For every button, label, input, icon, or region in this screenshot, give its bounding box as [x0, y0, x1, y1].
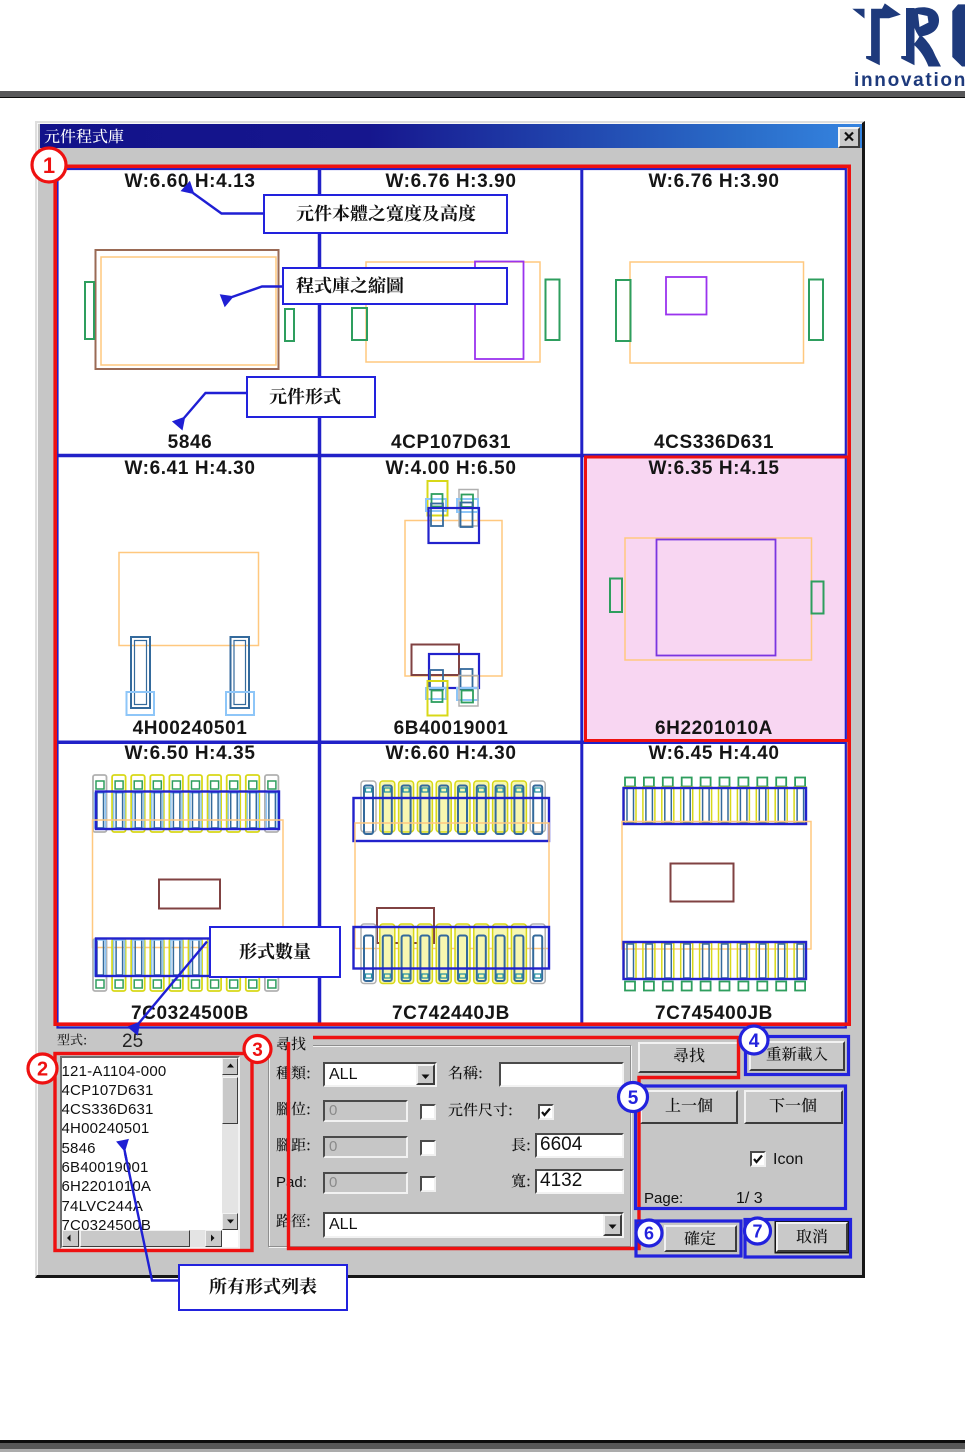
red annotation frame 3 (search group) — [289, 1038, 739, 1249]
path combobox — [323, 1212, 624, 1238]
listbox vertical scrollbar — [222, 1058, 239, 1230]
circle 7 — [745, 1218, 771, 1244]
field label 腳位 — [276, 1101, 311, 1120]
cell text labels — [62, 172, 318, 191]
cell 2,1 : 4H00240501 thumbnail — [119, 553, 259, 646]
TRI innovation logo — [840, 0, 965, 95]
blue annotation box 7 (cancel) — [745, 1220, 851, 1258]
grid listview white background — [58, 170, 845, 1026]
Icon checkbox (checked) — [750, 1151, 766, 1167]
cell 1,3 : 4CS336D631 thumbnail — [630, 262, 804, 363]
type count label — [57, 1033, 87, 1049]
Icon label — [773, 1151, 803, 1169]
cell 3,1 : 7C0324500B thumbnail — [93, 775, 107, 832]
search button — [638, 1042, 740, 1073]
group box — [268, 1045, 631, 1248]
pad checkbox — [420, 1176, 436, 1192]
pin checkbox — [420, 1104, 436, 1120]
field label 路徑 — [276, 1213, 311, 1232]
listbox horizontal scrollbar — [62, 1230, 222, 1247]
listbox — [60, 1056, 240, 1249]
circle 1 — [32, 148, 66, 182]
dialog title bar — [40, 124, 862, 148]
grid row divider 2 — [58, 740, 845, 744]
previous button — [640, 1090, 738, 1124]
cancel button — [776, 1222, 848, 1252]
reload button — [749, 1041, 845, 1071]
page value — [736, 1190, 763, 1208]
field label 種類 — [276, 1065, 311, 1084]
grid outer blue border — [58, 169, 846, 1028]
header rule bar — [0, 91, 965, 97]
callout: library thumbnail — [282, 267, 508, 305]
title text — [44, 128, 124, 148]
footer bars — [0, 1440, 965, 1444]
type count value — [122, 1031, 143, 1052]
blue annotation box 5 (prev/next) — [636, 1086, 846, 1209]
arrowhead into listbox — [125, 1150, 127, 1160]
cell 3,2 : 7C742440JB thumbnail — [361, 781, 376, 832]
pitch input (disabled) — [323, 1136, 408, 1158]
callout: body W/H — [263, 194, 508, 234]
circle 2 — [28, 1054, 57, 1083]
arrow to part name — [184, 393, 246, 418]
callout: part form — [246, 376, 376, 418]
field label 元件尺寸 — [448, 1102, 513, 1121]
group box label — [276, 1036, 306, 1055]
selected cell pink background — [587, 458, 848, 739]
grid column divider 1 — [318, 170, 322, 1026]
field label Pad — [276, 1174, 307, 1191]
callout: form count — [209, 926, 341, 978]
OK button — [664, 1225, 737, 1252]
width input 4132 — [535, 1169, 624, 1194]
listbox items — [62, 1062, 222, 1233]
arrow to count 25 — [139, 942, 207, 1024]
pin count input (disabled) — [323, 1100, 408, 1122]
cell 2,2 : 6B40019001 thumbnail — [405, 521, 502, 677]
page label — [644, 1190, 683, 1207]
circle 3 — [244, 1036, 271, 1063]
red annotation frame 1 (grid) — [55, 166, 849, 1024]
grid column divider 2 — [580, 170, 583, 1026]
cell 3,3 : 7C745400JB thumbnail — [625, 778, 635, 787]
arrow to W/H label — [193, 193, 263, 214]
pitch checkbox — [420, 1140, 436, 1156]
field label 腳距 — [276, 1137, 311, 1156]
grid row divider 1 — [58, 454, 845, 458]
pad input (disabled) — [323, 1172, 408, 1194]
circle 6 — [636, 1220, 662, 1246]
name input — [499, 1062, 624, 1087]
field label 名稱 — [448, 1065, 483, 1084]
connector line to list callout — [125, 1153, 178, 1281]
field label 寬 — [511, 1173, 531, 1192]
close X button — [838, 127, 860, 148]
selected cell red border — [586, 457, 849, 741]
cell 1,1 : 5846 thumbnail — [96, 250, 279, 369]
kind combobox — [323, 1062, 437, 1087]
cell 1,2 : 4CP107D631 thumbnail — [366, 262, 540, 362]
blue annotation box 4 (reload) — [746, 1037, 849, 1075]
red annotation frame 2 (listbox) — [55, 1054, 252, 1251]
dialog window frame — [35, 121, 865, 1278]
size checkbox (checked) — [538, 1104, 554, 1120]
svg-text:innovation: innovation — [854, 70, 965, 91]
blue annotation box 6 (OK) — [636, 1221, 741, 1256]
field label 長 — [511, 1137, 531, 1156]
cell 2,3 : 6H2201010A thumbnail (selected) — [625, 538, 812, 660]
circle 5 — [619, 1083, 648, 1112]
callout: all forms list — [178, 1264, 348, 1311]
length input 6604 — [535, 1133, 624, 1158]
arrow to thumbnail — [232, 287, 282, 298]
next button — [744, 1090, 844, 1124]
circle 4 — [740, 1026, 768, 1054]
